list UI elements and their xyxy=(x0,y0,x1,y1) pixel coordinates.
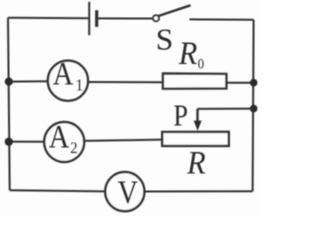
svg-text:R: R xyxy=(178,35,197,71)
svg-text:A: A xyxy=(53,56,73,92)
svg-text:R: R xyxy=(186,144,205,180)
svg-text:A: A xyxy=(49,119,69,155)
svg-text:S: S xyxy=(156,22,174,57)
svg-text:1: 1 xyxy=(76,77,84,95)
svg-text:V: V xyxy=(118,174,138,211)
svg-text:2: 2 xyxy=(70,140,77,158)
svg-text:P: P xyxy=(173,100,188,133)
svg-text:0: 0 xyxy=(198,57,204,73)
